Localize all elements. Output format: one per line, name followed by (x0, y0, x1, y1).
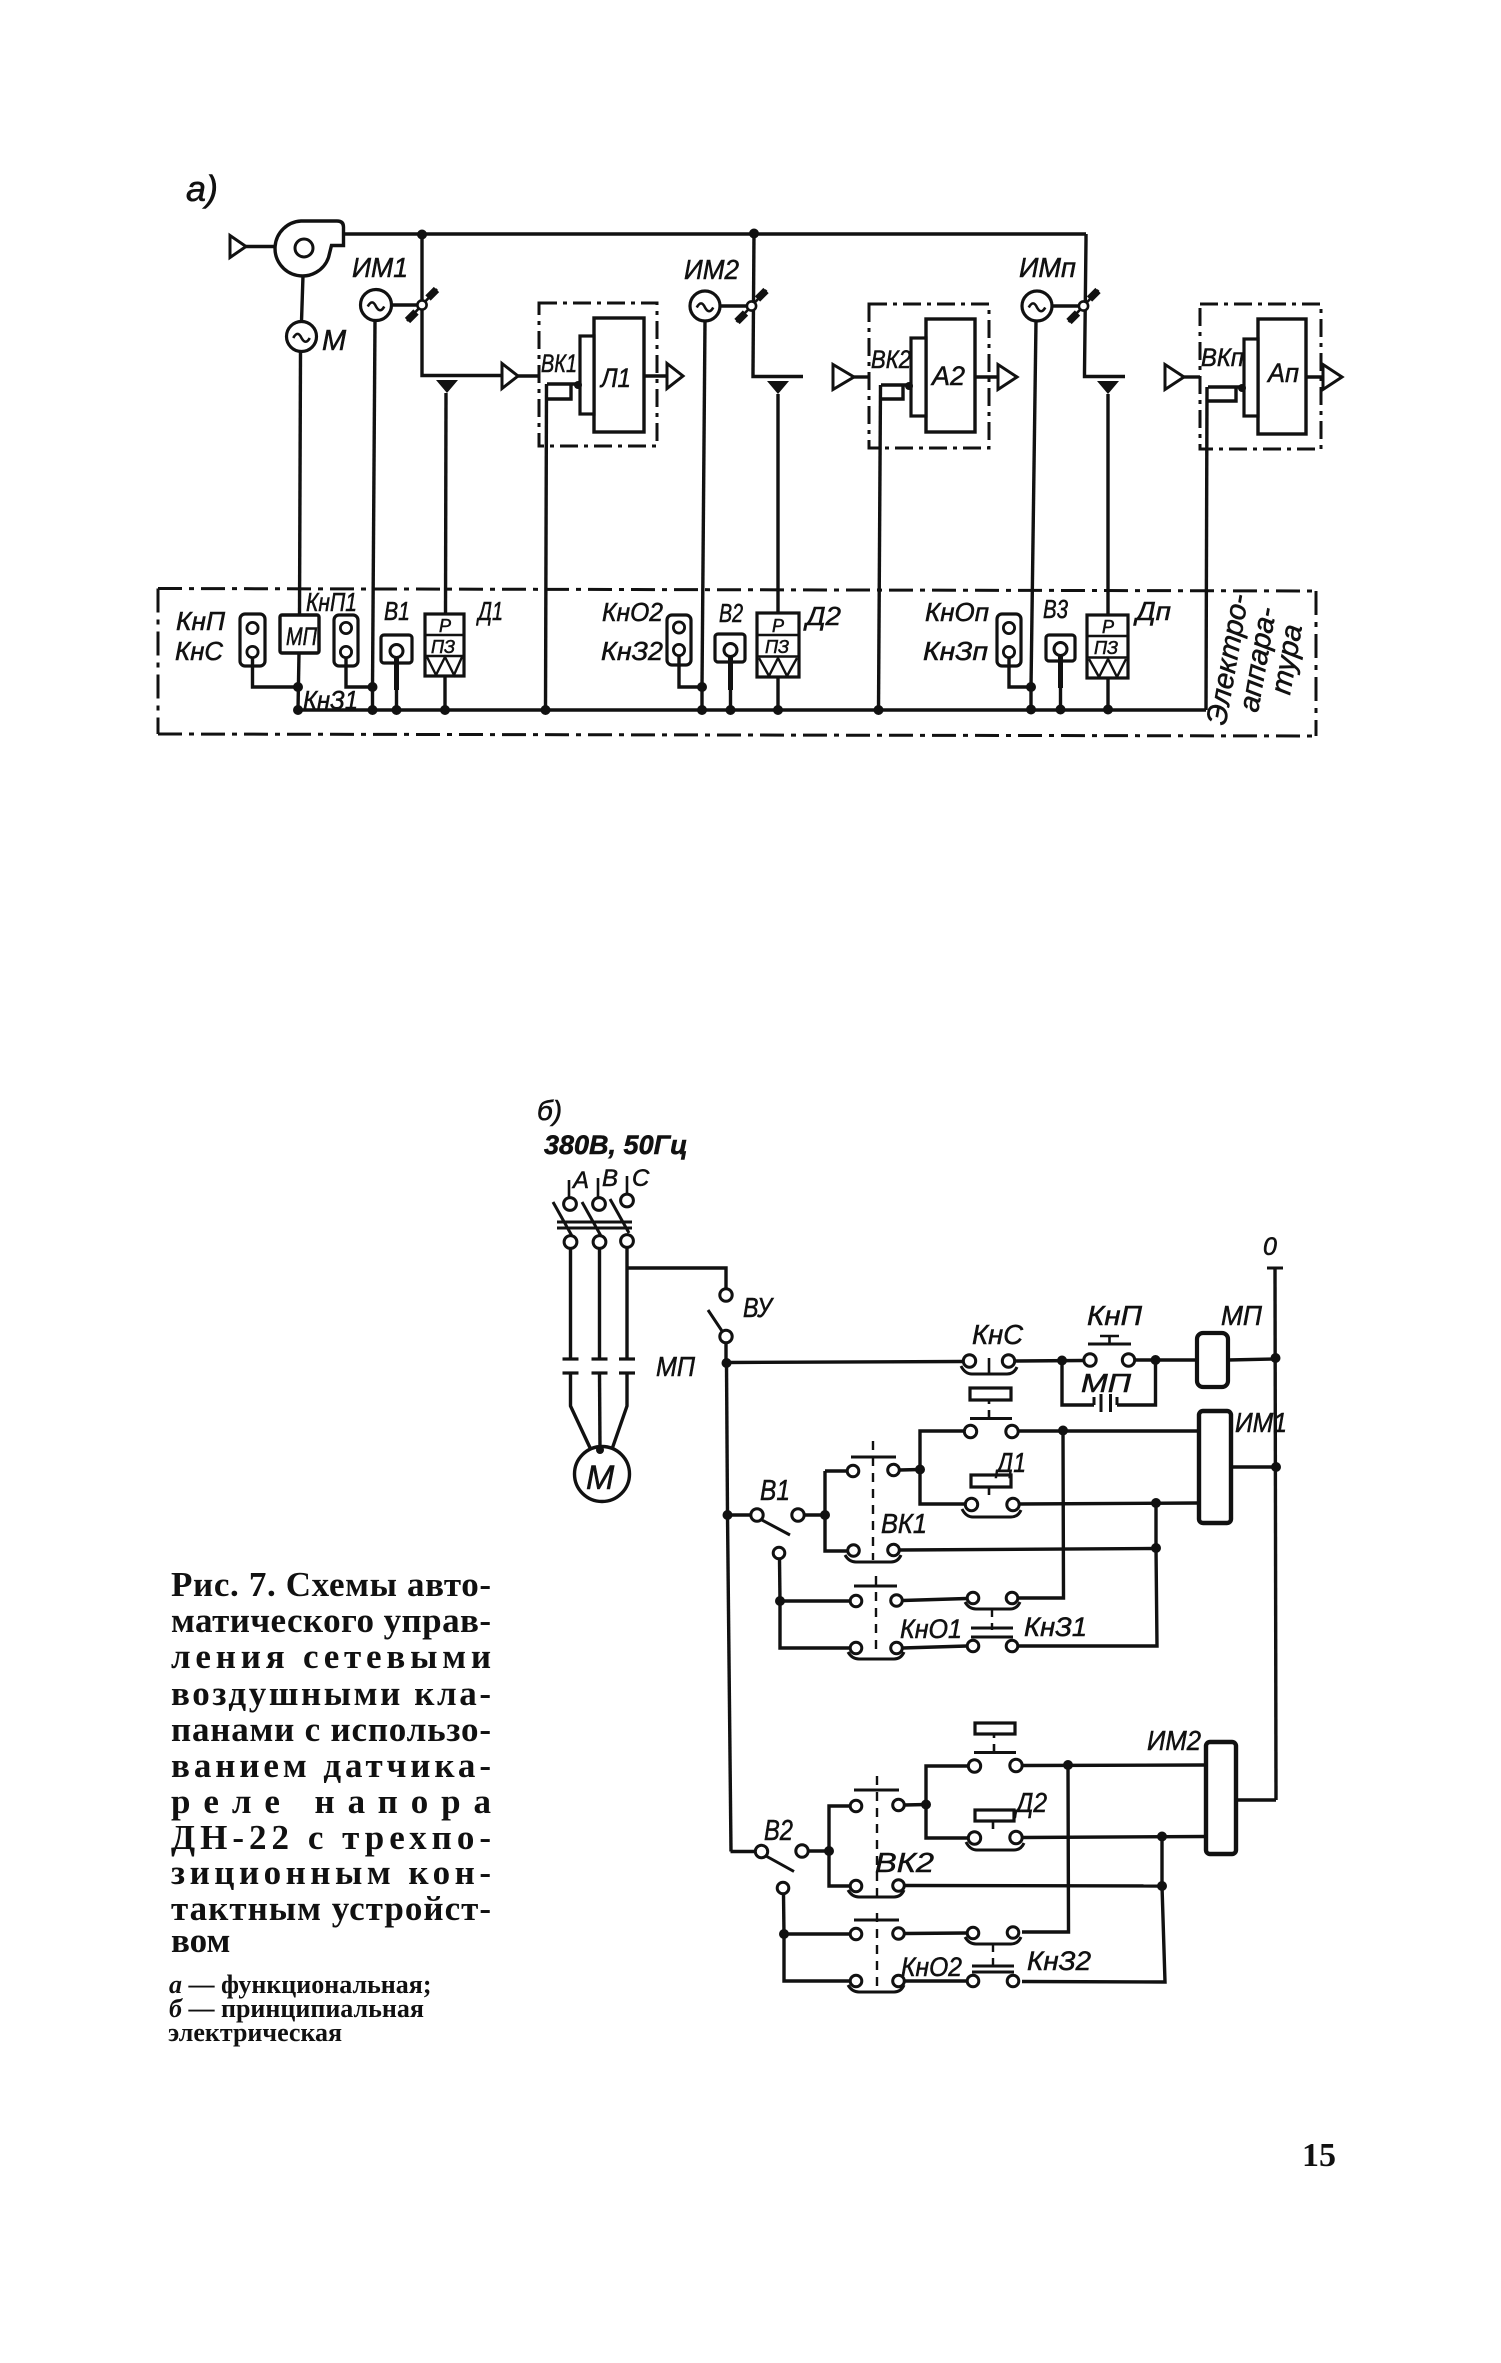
wire Дп to bus (1106, 678, 1109, 709)
В1 lower throw contact (773, 1547, 785, 1559)
wire В1 lower throw down (778, 1559, 782, 1601)
wire branch up to ВК1 upper contact (823, 1471, 826, 1515)
valve drive А2 rectangle (926, 319, 975, 432)
wire ВК2 upper to Д2 junction (905, 1803, 927, 1807)
svg-text:В2: В2 (719, 598, 743, 628)
wire tap n down to Дп (1106, 394, 1109, 615)
valve drive Л1 rectangle (594, 318, 644, 432)
В1 plunger to bus (394, 658, 399, 691)
wire Д2 NO to ИМ2 coil (1022, 1763, 1206, 1767)
top air duct line (344, 232, 1087, 235)
stop button КнС (NC) (963, 1355, 975, 1367)
wire branch up to ВК2 upper contact (829, 1806, 850, 1851)
start button КнП (NO) (1084, 1354, 1096, 1366)
КнЗ2 actuator (992, 1945, 994, 1971)
svg-text:реле напора: реле напора (171, 1782, 491, 1821)
wire КнО1 upper to КнЗ1 upper (903, 1599, 968, 1601)
svg-text:ления сетевыми: ления сетевыми (171, 1637, 491, 1676)
svg-text:В1: В1 (760, 1475, 790, 1507)
node on ИМ2 drop (697, 682, 707, 692)
svg-text:Р: Р (772, 616, 784, 636)
wire КнО1 lower to КнЗ1 lower (903, 1646, 968, 1648)
wire ИМ2 drop (upper) (702, 321, 705, 688)
В2 plunger to bus (728, 657, 733, 691)
svg-text:ВКп: ВКп (1201, 344, 1244, 372)
svg-text:15: 15 (1302, 2137, 1336, 2174)
svg-text:ВК1: ВК1 (541, 350, 577, 378)
КнЗ1 lower contact (NO) (967, 1640, 979, 1652)
svg-text:КнС: КнС (972, 1319, 1024, 1350)
switch В1 box (381, 635, 412, 663)
magnetic starter МП box (280, 615, 319, 653)
svg-text:вом: вом (171, 1921, 230, 1960)
svg-text:панами с использо-: панами с использо- (171, 1710, 491, 1749)
wire arrow to ВКп box (1184, 375, 1200, 378)
svg-text:ВК2: ВК2 (871, 346, 911, 374)
wire ИМп drop (upper) (1031, 321, 1036, 687)
wire branch down to КнО1 lower (780, 1601, 850, 1648)
svg-text:0: 0 (1263, 1233, 1277, 1261)
ВК2 connector notch (881, 383, 909, 386)
wire ИМп to valve n (1052, 304, 1078, 307)
svg-text:С: С (632, 1165, 650, 1192)
ВК1 position cross (851, 1456, 896, 1459)
link vertical to ВК1 lower rung (1154, 1503, 1157, 1548)
actuator ИМ2 circle (690, 291, 720, 321)
wire Д2 to bus (776, 677, 779, 710)
ВК1 plate rectangle (580, 336, 594, 414)
node on МП drop (293, 682, 303, 692)
svg-text:Л1: Л1 (599, 363, 631, 393)
svg-text:Д1: Д1 (995, 1447, 1026, 1478)
node ВК1 lower link (1151, 1543, 1161, 1553)
svg-text:КнП: КнП (176, 606, 225, 636)
wire ИМ1 drop to bus (371, 687, 374, 710)
svg-text:В3: В3 (1043, 594, 1068, 624)
node motor top (596, 1446, 604, 1454)
ВК1 lower contact (848, 1545, 860, 1557)
wire КнЗ2 to ИМ2 line (679, 656, 701, 687)
actuator ИМп circle (1022, 291, 1052, 321)
svg-text:В: В (602, 1165, 618, 1192)
disconnect ВУ (720, 1289, 732, 1301)
wire valve 1 branch to VK1 input (422, 371, 501, 376)
node on ИМп drop (1026, 682, 1036, 692)
output arrow of Л1 (667, 364, 683, 389)
wire Д2 NC to ИМ2 coil (1022, 1837, 1206, 1838)
svg-text:Ап: Ап (1266, 358, 1299, 388)
node junction at IM2 branch (749, 229, 759, 239)
svg-text:ВК2: ВК2 (875, 1847, 934, 1878)
svg-text:КнО2: КнО2 (901, 1952, 962, 1982)
wire КнЗ1 to ИМ1 line (346, 658, 372, 687)
node self-hold right (1151, 1355, 1161, 1365)
node ИМ1 coil to 0 bus (1271, 1462, 1281, 1472)
phase wires to motor (571, 1373, 593, 1452)
wire ВК1 down to electro box (546, 384, 547, 710)
wire ВК2 lower to link (905, 1884, 1163, 1888)
valve 2 (damper) (737, 290, 767, 322)
node КнЗ1 feed (1058, 1426, 1068, 1436)
svg-text:В1: В1 (384, 596, 410, 626)
wire branch down to ВК1 lower contact (825, 1515, 848, 1551)
node КнО2 branch (779, 1929, 789, 1939)
fan hub circle (295, 239, 313, 257)
svg-text:КнЗ2: КнЗ2 (1027, 1946, 1091, 1976)
wire КнЗ2 feed down (1022, 1765, 1069, 1932)
svg-text:МП: МП (286, 623, 318, 651)
svg-text:ванием датчика-: ванием датчика- (171, 1746, 491, 1785)
wire arrow to ВК1 box (518, 374, 539, 377)
self-hold contact МП bars (1100, 1394, 1103, 1412)
pressure tap flag n (1097, 381, 1119, 394)
coil МП (1197, 1333, 1228, 1387)
svg-text:КнО2: КнО2 (602, 597, 663, 627)
wire А2 to output arrow (975, 375, 998, 378)
ВК1 sensor box (dash-dot) (539, 303, 657, 446)
svg-text:КнП: КнП (1087, 1300, 1143, 1331)
wire ВУ to junction (724, 1343, 727, 1364)
node НЗ-ВК1 link (1151, 1498, 1161, 1508)
svg-text:ИМ1: ИМ1 (1235, 1407, 1287, 1438)
node self-hold left (1057, 1356, 1067, 1366)
КнО2 upper contact (850, 1928, 862, 1940)
svg-text:КнЗ2: КнЗ2 (601, 636, 664, 666)
svg-text:А: А (571, 1167, 589, 1194)
ВКп connector notch (1208, 385, 1242, 388)
pushbutton КнП1/КнЗ1 (334, 615, 358, 666)
wire КнО2 lower to КнЗ2 lower (905, 1979, 968, 1982)
КнЗ2 upper contact (NC) (967, 1927, 979, 1939)
svg-text:ИМ1: ИМ1 (352, 252, 408, 283)
wire main vertical МП to В1 (727, 1363, 728, 1515)
КнО1 lower contact (850, 1642, 862, 1654)
wire ИМ2 drop to bus (700, 687, 703, 710)
Д2 NO contact (968, 1760, 980, 1772)
svg-text:ДН-22 с трехпо-: ДН-22 с трехпо- (171, 1818, 491, 1857)
node Д1 contacts junction (915, 1465, 925, 1475)
node ВК1 branch (820, 1510, 830, 1520)
wire КнЗ1 feed down (1018, 1431, 1064, 1599)
supply switch blades (553, 1202, 572, 1236)
svg-text:ВК1: ВК1 (881, 1508, 927, 1539)
svg-text:КнС: КнС (175, 636, 223, 666)
svg-text:Дп: Дп (1133, 596, 1171, 626)
svg-text:КнП1: КнП1 (306, 587, 357, 617)
ВК1 connector notch (547, 382, 578, 385)
wire junction down to Д2 NC rung (926, 1805, 968, 1839)
supply switch top contacts (564, 1198, 577, 1211)
Д1 NO bellows (970, 1388, 1011, 1400)
В2 lower throw contact (777, 1882, 789, 1894)
wire КнС to КнП (1015, 1359, 1085, 1363)
pressure relay Дп box (1087, 615, 1128, 678)
svg-text:а): а) (186, 168, 218, 209)
МП main contacts (three) (563, 1357, 579, 1360)
wire junction down to Д1 NC rung (920, 1470, 965, 1505)
fan (centrifugal ventilator) casing (275, 221, 343, 276)
svg-text:б): б) (537, 1095, 562, 1126)
electro box border (dash-dot) (158, 589, 1316, 592)
ВК2 sensor box (dash-dot) (869, 304, 989, 448)
wire ИМ2 coil to 0 bus corner (1236, 1798, 1276, 1801)
КнО2 lower contact (850, 1975, 862, 1987)
svg-text:Р: Р (439, 616, 451, 636)
selector В1 (751, 1509, 763, 1521)
node МП junction (722, 1358, 732, 1368)
svg-text:ИМ2: ИМ2 (1147, 1725, 1201, 1756)
self-hold contact МП leads (1062, 1361, 1094, 1406)
svg-text:МП: МП (1081, 1368, 1131, 1398)
link vertical to ВК2 lower rung (1160, 1837, 1163, 1887)
valve n (damper) (1069, 290, 1099, 322)
wire arrow to ВК2 box (854, 375, 869, 378)
supply switch tie bars (557, 1221, 632, 1224)
drop line from top duct through valve 1 (420, 234, 423, 371)
КнЗ1 actuator (991, 1610, 993, 1637)
0 terminal tick (1267, 1267, 1283, 1270)
svg-text:воздушными кла-: воздушными кла- (171, 1674, 491, 1713)
КнО2 position cross (854, 1919, 899, 1922)
svg-text:М: М (586, 1459, 615, 1497)
wire КнП to МП coil (1135, 1358, 1198, 1361)
wire ИМ1 coil to 0 bus (1231, 1465, 1276, 1468)
wire branch down to ВК2 lower contact (829, 1851, 850, 1886)
input arrow to ВКп (1165, 365, 1184, 390)
wire В1 to ВК1 branch point (804, 1513, 825, 1516)
wire КнО2 upper to КнЗ2 upper (905, 1931, 968, 1935)
wire ИМ1 drop (upper) (373, 321, 376, 688)
node КнО1 branch (775, 1596, 785, 1606)
КнЗ1 upper contact (NC) (967, 1592, 979, 1604)
wire Д1 to bus (443, 676, 446, 710)
svg-text:В2: В2 (764, 1815, 793, 1847)
svg-text:МП: МП (1221, 1300, 1263, 1331)
motor M circle (b) (575, 1447, 630, 1502)
input arrow to ВК2 (833, 365, 854, 390)
svg-text:ВУ: ВУ (743, 1292, 775, 1323)
valve 1 (damper) (407, 289, 437, 321)
switch В2 box (715, 634, 745, 662)
wire junction up to Д2 NO rung (926, 1766, 968, 1805)
actuator ИМ1 circle (361, 290, 392, 321)
pressure relay Д2 box (757, 613, 799, 677)
node МП coil to 0 bus (1271, 1353, 1281, 1363)
link vertical to КнЗ2 lower rung (1022, 1886, 1165, 1982)
node ВК2 lower link (1157, 1881, 1167, 1891)
svg-text:380В, 50Гц: 380В, 50Гц (544, 1130, 688, 1160)
Д2 NO bellows (975, 1723, 1015, 1734)
output arrow of А2 (998, 365, 1017, 390)
branch to ВУ (627, 1268, 726, 1289)
wire branch down to КнО2 lower (784, 1934, 850, 1981)
svg-text:КнОп: КнОп (925, 597, 989, 627)
pressure tap flag 2 (767, 381, 789, 394)
wire Ап to output arrow (1306, 375, 1323, 378)
svg-text:Р: Р (1102, 617, 1114, 637)
pushbutton КнОп/КнЗп (997, 614, 1021, 666)
wire МП coil to 0 bus (1228, 1359, 1275, 1360)
node НЗ-ВК2 link (1157, 1832, 1167, 1842)
svg-text:А2: А2 (930, 361, 965, 391)
output arrow of Ап (1323, 365, 1342, 390)
svg-text:ПЗ: ПЗ (765, 637, 789, 657)
КнО1 position cross (854, 1585, 897, 1588)
wire КнС to МП line (253, 658, 298, 687)
node КнЗ2 feed (1063, 1760, 1073, 1770)
Д2 NC contact (968, 1832, 980, 1844)
wire В2 to ВК2 branch point (808, 1849, 829, 1852)
svg-text:ПЗ: ПЗ (1094, 638, 1118, 658)
wire ВКп down to electro bus corner (1206, 387, 1207, 710)
ВКп sensor box (dash-dot) (1200, 304, 1321, 449)
wire ИМп drop to bus (1029, 687, 1032, 709)
wire junction to В1 (728, 1513, 751, 1516)
coil ИМ1 (1199, 1411, 1231, 1523)
wire ВК1 lower to link (900, 1549, 1157, 1551)
svg-text:ИМ2: ИМ2 (684, 254, 739, 285)
svg-text:ПЗ: ПЗ (431, 637, 455, 657)
wire tap 2 down to Д2 (776, 394, 779, 613)
motor M circle (287, 322, 317, 352)
wire Д1 NO to ИМ1 coil (1018, 1429, 1199, 1432)
ВК2 upper contact (850, 1800, 862, 1812)
input arrow into fan (230, 236, 246, 258)
phase wires down (569, 1249, 572, 1360)
node В1 junction on main vertical (723, 1510, 733, 1520)
ВК2 position cross (854, 1789, 899, 1792)
wire M to MP box (electro box) (300, 352, 301, 616)
0 bus vertical (1275, 1268, 1276, 1800)
wire arrow to fan (246, 245, 277, 248)
svg-text:Д2: Д2 (1013, 1787, 1047, 1818)
electro common bus (297, 708, 1206, 711)
wire branch to КнО1 upper (780, 1599, 850, 1602)
node ВК2 branch (824, 1846, 834, 1856)
drop line from top duct through valve 2 (753, 233, 754, 372)
wire МП box to bus (298, 653, 299, 710)
valve drive Ап rectangle (1258, 319, 1306, 434)
switch В3 box (1046, 635, 1075, 661)
svg-text:КнЗп: КнЗп (923, 636, 988, 666)
pressure relay Д1 box (425, 614, 464, 676)
control rung wire МП junction to КнС (726, 1362, 963, 1363)
svg-text:матического управ-: матического управ- (171, 1601, 491, 1640)
pushbutton КнП/КнС (240, 614, 265, 666)
pressure tap flag 1 (436, 380, 458, 393)
svg-text:Рис. 7. Схемы авто-: Рис. 7. Схемы авто- (171, 1565, 491, 1604)
ВК2 plate rectangle (911, 338, 926, 416)
wire main vertical corner to В2 (731, 1850, 756, 1853)
svg-text:ИМп: ИМп (1019, 252, 1076, 283)
Д1 NO contact (964, 1425, 976, 1437)
ВК2 lower contact (850, 1880, 862, 1892)
supply switch bottom contacts (564, 1236, 577, 1249)
svg-text:Д2: Д2 (803, 601, 842, 631)
wire Л1 to output arrow (644, 374, 667, 377)
svg-text:КнЗ1: КнЗ1 (1024, 1612, 1087, 1642)
svg-text:зиционным кон-: зиционным кон- (171, 1853, 491, 1892)
coil ИМ2 (1206, 1742, 1236, 1854)
wire ВК1 upper to Д1 junction (900, 1468, 921, 1472)
node junction at IM1 branch (417, 230, 427, 240)
wire ИМ2 to valve 2 (720, 304, 746, 307)
drop line from top duct corner through valve n (1085, 234, 1126, 377)
wire junction up to Д1 NO rung (920, 1431, 964, 1470)
svg-text:электрическая: электрическая (168, 2018, 342, 2047)
ВКп plate rectangle (1244, 339, 1258, 416)
В3 plunger to bus (1058, 656, 1063, 689)
КнО1 upper contact (850, 1595, 862, 1607)
wire ИМ1 to valve 1 (392, 303, 418, 306)
svg-text:КнО1: КнО1 (900, 1614, 962, 1644)
Д1 NC contact (965, 1498, 977, 1510)
svg-text:Д1: Д1 (476, 596, 503, 626)
КнЗ2 lower contact (NO) (967, 1975, 979, 1987)
Д2 NC bellows (975, 1810, 1014, 1821)
svg-text:М: М (322, 325, 347, 357)
ВК1 upper contact (825, 1469, 847, 1472)
wire branch to КнО2 upper (784, 1932, 850, 1935)
pushbutton КнО2/КнЗ2 (667, 615, 691, 665)
wire valve 2 branch toward ВК2 (753, 372, 803, 377)
wire fan to motor M (302, 276, 304, 322)
svg-text:МП: МП (656, 1351, 696, 1382)
wire В2 lower throw down (782, 1894, 786, 1934)
wire ВК2 down to electro box (879, 385, 881, 710)
node Д2 contacts junction (921, 1800, 931, 1810)
phase lead ticks (568, 1180, 571, 1197)
link vertical to КнЗ1 lower rung (1018, 1548, 1157, 1646)
node on ИМ1 drop (368, 682, 378, 692)
input arrow to ВК1 (502, 364, 518, 389)
selector В2 (755, 1845, 767, 1857)
Д1 NC bellows (971, 1475, 1011, 1487)
wire КнЗп to ИМп line (1009, 658, 1030, 687)
wire Д1 NC to ИМ1 coil (1019, 1503, 1199, 1504)
wire main vertical В1 to В2 (728, 1515, 732, 1852)
wire tap 1 down to Д1 (444, 393, 448, 614)
